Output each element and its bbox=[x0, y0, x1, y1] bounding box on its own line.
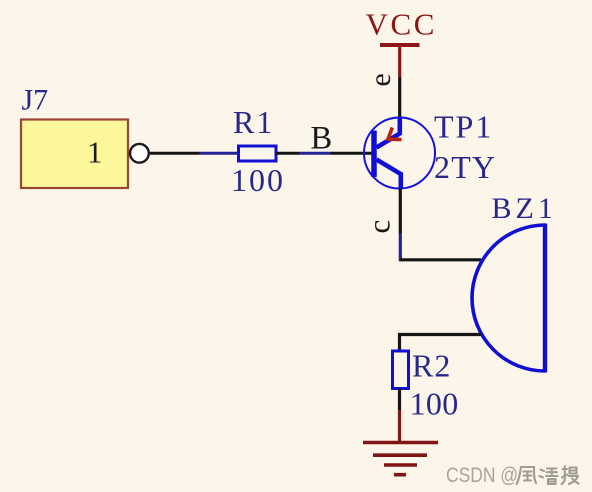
transistor base bar bbox=[371, 131, 377, 178]
wire collector to buzzer pin bbox=[399, 234, 402, 262]
svg-text:R2: R2 bbox=[412, 348, 451, 384]
buzzer BZ1 bbox=[472, 225, 545, 371]
svg-text:B: B bbox=[311, 121, 333, 157]
wire VCC to emitter bbox=[398, 77, 401, 118]
transistor collector bbox=[377, 160, 401, 189]
pin 1 open circle bbox=[130, 144, 149, 163]
svg-text:100: 100 bbox=[410, 386, 459, 422]
VCC stub bbox=[398, 45, 401, 77]
collector pin lead bbox=[399, 189, 402, 234]
ground bar 1 bbox=[363, 441, 438, 445]
resistor R2 bbox=[393, 351, 409, 389]
svg-text:BZ1: BZ1 bbox=[492, 192, 557, 225]
transistor TP1 circle bbox=[364, 118, 435, 189]
svg-text:CSDN @: CSDN @ bbox=[446, 464, 518, 487]
svg-text:100: 100 bbox=[231, 162, 285, 198]
resistor R1 bbox=[239, 146, 277, 161]
wire buzzer bottom to R2 bbox=[400, 335, 482, 352]
svg-text:VCC: VCC bbox=[366, 7, 438, 42]
svg-text:c: c bbox=[362, 220, 397, 234]
svg-text:TP1: TP1 bbox=[434, 109, 493, 145]
watermark CJK 風清揚 (drawn) bbox=[517, 466, 579, 484]
ground bar 3 bbox=[384, 463, 417, 467]
wire R2 to ground bbox=[398, 389, 401, 411]
transistor emitter bbox=[377, 118, 400, 148]
ground bar 2 bbox=[373, 453, 427, 457]
buzzer pin 1 lead bbox=[400, 258, 481, 261]
wire R1 to base bbox=[300, 152, 331, 155]
pin 1 lead bbox=[150, 152, 200, 155]
base pin lead bbox=[331, 152, 373, 155]
connector J7 body bbox=[21, 120, 128, 189]
ground bar 4 bbox=[394, 473, 406, 477]
VCC bar bbox=[380, 43, 420, 47]
wire pin1 to R1 bbox=[200, 152, 240, 155]
svg-text:J7: J7 bbox=[22, 84, 49, 117]
svg-text:2TY: 2TY bbox=[434, 149, 496, 185]
svg-text:R1: R1 bbox=[233, 104, 274, 140]
svg-text:e: e bbox=[364, 73, 397, 86]
ground stub bbox=[398, 410, 401, 441]
svg-text:1: 1 bbox=[87, 135, 103, 170]
emitter arrow (red) bbox=[388, 128, 402, 140]
R1 right lead bbox=[276, 152, 300, 155]
